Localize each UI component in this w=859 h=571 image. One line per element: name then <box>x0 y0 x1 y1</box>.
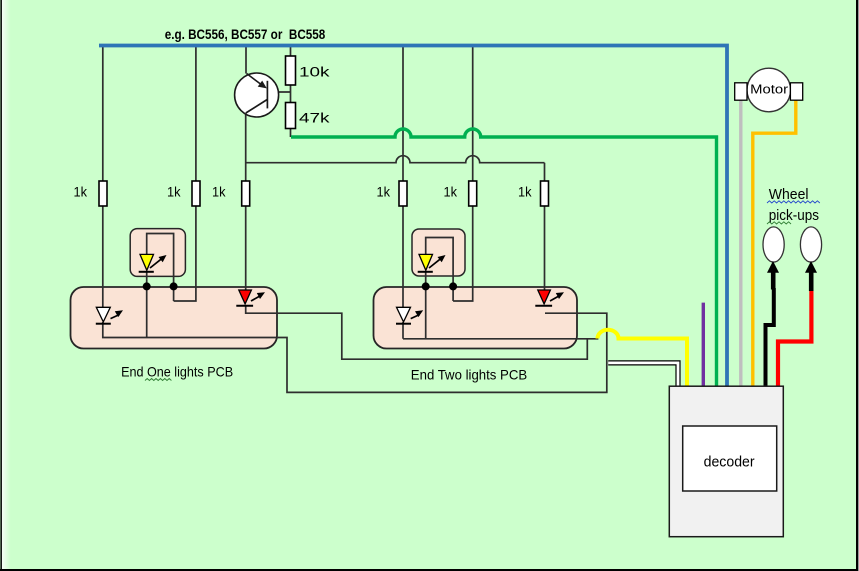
svg-text:1k: 1k <box>518 183 532 199</box>
wheel pick-up left <box>763 227 784 262</box>
LED D5 yellow (end two) <box>418 254 446 271</box>
svg-text:e.g. BC556, BC557 or BC558: e.g. BC556, BC557 or BC558 <box>165 26 326 42</box>
wire: purple spare function <box>702 303 705 387</box>
resistor R3 1k <box>242 181 250 206</box>
resistor R1 1k <box>99 181 107 206</box>
svg-text:End One lights PCB: End One lights PCB <box>121 364 233 380</box>
wire: red track pickup wire <box>778 290 811 387</box>
wire: rail drop to R1 and white LED D1 anode <box>102 46 104 308</box>
wire: rail drop to R2 <box>174 46 196 302</box>
svg-text:1k: 1k <box>74 183 88 199</box>
PCB End One yellow-LED sub-board <box>130 229 185 277</box>
resistor 10k <box>286 56 296 85</box>
LED D2 yellow (end one) <box>139 254 167 271</box>
wire: blue decoder common (rail) <box>99 46 727 387</box>
wire: white function wire (blank) to decoder <box>608 363 678 387</box>
wire: yellow LED D2 anode loop (sub-board one) <box>147 234 174 302</box>
wire: yellow LED D5 anode loop (sub-board two) <box>426 238 453 302</box>
wire: collector down to R3 and red LED D3 <box>245 113 247 290</box>
wire: gray motor wire <box>739 99 742 387</box>
resistor R2 1k <box>192 181 200 206</box>
arrow into right pick-up <box>805 261 817 273</box>
resistor R6 1k <box>541 181 549 206</box>
LED D1 white (end one) <box>96 307 123 323</box>
LED D3 red (end one) <box>236 290 265 306</box>
wire: R6 drop to red LED D6 <box>544 163 546 290</box>
wire: end one bottom rail to end two red cathode net <box>103 313 607 392</box>
wire: black track pickup wire <box>766 288 774 387</box>
wire: yellow LED D5 cathode to rail <box>425 272 427 339</box>
wire: yellow LED D2 cathode to rail <box>146 272 148 338</box>
LED D6 red (end two) <box>535 290 564 306</box>
wire: end one red cathode to end two rail net <box>246 305 588 359</box>
PCB End One board <box>71 287 278 349</box>
resistor R5 1k <box>469 181 477 206</box>
svg-text:1k: 1k <box>377 183 391 199</box>
wire: green function wire from 47k <box>291 129 717 387</box>
svg-text:10k: 10k <box>299 63 331 79</box>
svg-text:End Two lights PCB: End Two lights PCB <box>411 366 527 382</box>
transistor Q1 <box>235 73 279 117</box>
junction dots end one <box>143 282 151 290</box>
wire: yellow function wire to decoder <box>598 330 688 387</box>
wire: rail drop to R4 and white LED D4 <box>402 46 404 308</box>
svg-text:pick-ups: pick-ups <box>769 207 819 224</box>
PCB End Two board <box>374 287 578 349</box>
wire: collector horizontal with hops <box>246 156 545 163</box>
wheel pick-up right <box>800 227 821 262</box>
svg-text:decoder: decoder <box>704 454 755 471</box>
wire: end two bottom rail to yellow wire start <box>403 322 598 339</box>
arrow into left pick-up <box>767 261 779 273</box>
motor M1 <box>735 68 803 112</box>
wire: 10k/47k chain and base lead <box>267 46 290 138</box>
wire: rail drop to R5 <box>453 46 473 302</box>
svg-text:1k: 1k <box>212 183 226 199</box>
svg-text:1k: 1k <box>167 183 181 199</box>
svg-text:47k: 47k <box>299 110 331 126</box>
wire: orange motor wire <box>753 100 796 387</box>
svg-text:Motor: Motor <box>750 82 789 97</box>
wire: transistor emitter from blue rail <box>245 46 247 74</box>
decoder box <box>669 386 783 537</box>
resistor 47k <box>286 103 296 129</box>
LED D4 white (end two) <box>396 307 423 323</box>
resistor R4 1k <box>399 181 407 206</box>
svg-text:1k: 1k <box>444 183 458 199</box>
junction dots end two <box>422 282 430 290</box>
squiggle under One <box>145 379 171 381</box>
PCB End Two yellow-LED sub-board <box>412 229 465 276</box>
